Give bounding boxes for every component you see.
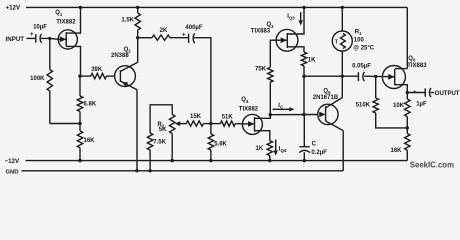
resistor 100K bbox=[47, 38, 80, 123]
wire node B to 16K bbox=[79, 124, 81, 131]
wire pot top bus bbox=[150, 105, 172, 133]
svg-text:C: C bbox=[312, 142, 317, 148]
svg-text:10µF: 10µF bbox=[33, 25, 47, 31]
wire node E down to Q5 base node bbox=[303, 76, 305, 114]
svg-text:400µF: 400µF bbox=[185, 25, 202, 31]
svg-text:−12V: −12V bbox=[5, 158, 20, 165]
svg-text:IQ4: IQ4 bbox=[279, 146, 287, 153]
svg-text:100: 100 bbox=[354, 38, 365, 44]
junction 5.6K on -12V rail bbox=[209, 159, 212, 162]
wire 0.05uF to node H bbox=[364, 75, 383, 77]
resistor 5.6K bbox=[208, 124, 213, 161]
-12V rail bbox=[26, 160, 408, 162]
svg-text:Q4: Q4 bbox=[241, 97, 249, 104]
resistor 16K left bbox=[77, 131, 82, 148]
svg-text:100K: 100K bbox=[30, 76, 45, 82]
svg-text:TIX882: TIX882 bbox=[239, 106, 259, 112]
wire Q4 node to Q5 base bbox=[270, 114, 318, 116]
current arrow I_Q4 bbox=[274, 140, 278, 156]
junction 39K node bbox=[78, 74, 81, 77]
resistor 1.5K bbox=[135, 7, 140, 37]
junction R1 on +12V rail bbox=[341, 6, 344, 9]
resistor 1K Q4 bbox=[267, 141, 272, 161]
svg-text:SeekIC.com: SeekIC.com bbox=[410, 161, 454, 170]
junction Q3 base2 on +12V rail bbox=[302, 6, 305, 9]
svg-text:TIX883: TIX883 bbox=[251, 29, 271, 35]
junction 16K on -12V rail bbox=[78, 159, 81, 162]
current arrow I_C bbox=[273, 107, 295, 111]
svg-text:IQ3: IQ3 bbox=[287, 14, 295, 21]
svg-text:2K: 2K bbox=[160, 28, 168, 34]
resistor 16K right bbox=[405, 128, 410, 161]
wire Q2 collector up bbox=[137, 38, 139, 63]
svg-text:7.5K: 7.5K bbox=[153, 140, 166, 146]
node I junction output bbox=[406, 91, 409, 94]
svg-text:OUTPUT: OUTPUT bbox=[435, 91, 460, 97]
junction 0.2uF on -12V rail bbox=[303, 159, 306, 162]
node C junction 1.5K/2K/Q2 bbox=[136, 36, 139, 39]
wire node A to Q1 emitter bbox=[50, 37, 59, 40]
junction 7.5K on GND bbox=[148, 169, 151, 172]
node D junction 15K/51K/5.6K bbox=[209, 122, 212, 125]
svg-text:6.8K: 6.8K bbox=[84, 101, 97, 107]
resistor 7.5K bbox=[147, 133, 152, 171]
svg-text:51K: 51K bbox=[222, 115, 234, 121]
svg-text:10K: 10K bbox=[393, 103, 405, 109]
svg-text:0.05µF: 0.05µF bbox=[352, 64, 371, 70]
svg-text:INPUT: INPUT bbox=[6, 36, 25, 43]
wire node E to node G bbox=[304, 75, 358, 77]
transistor Q2 2N388 symbol bbox=[115, 62, 138, 90]
node G junction R1 collector bbox=[341, 75, 344, 78]
node H junction 510K bbox=[374, 75, 377, 78]
svg-text:1µF: 1µF bbox=[416, 102, 427, 108]
svg-text:15K: 15K bbox=[190, 114, 202, 120]
transistor Q4 TIX882 symbol bbox=[242, 114, 270, 140]
svg-text:Q6: Q6 bbox=[408, 56, 416, 63]
resistor 10K bbox=[405, 93, 410, 128]
svg-text:0.2µF: 0.2µF bbox=[311, 150, 327, 156]
node A junction bbox=[48, 37, 51, 40]
resistor 2K bbox=[138, 35, 189, 40]
wire Q5 collector up bbox=[341, 76, 343, 97]
junction Q2 emitter on GND bbox=[135, 169, 138, 172]
wire 400uF to vertical drop bbox=[194, 38, 211, 124]
wire input to capacitor bbox=[27, 37, 36, 39]
junction R2 on -12V rail bbox=[171, 159, 174, 162]
wire Q2 emitter down to GND bbox=[136, 90, 138, 171]
svg-text:+: + bbox=[30, 31, 34, 38]
node J junction 10K/510K/16K bbox=[406, 126, 409, 129]
resistor 15K bbox=[186, 121, 211, 126]
wire Q5 emitter down to GND corner bbox=[342, 131, 344, 171]
resistor 51K bbox=[211, 121, 243, 126]
+12V rail bbox=[26, 6, 407, 8]
node B junction bbox=[78, 122, 81, 125]
svg-text:+12V: +12V bbox=[6, 5, 21, 12]
resistor 510K bbox=[373, 76, 407, 128]
wire 16K to -12V rail bbox=[79, 148, 81, 161]
resistor 1K Q3 bbox=[301, 52, 306, 76]
svg-text:1.5K: 1.5K bbox=[121, 17, 134, 23]
capacitor 1uF bbox=[425, 88, 431, 97]
R2 wiper arrow bbox=[175, 121, 187, 126]
svg-text:39K: 39K bbox=[91, 67, 103, 73]
thermistor R1 bbox=[332, 7, 352, 76]
transistor Q1 TIX882 symbol bbox=[58, 7, 80, 76]
svg-text:+: + bbox=[182, 32, 186, 39]
wire 6.8K to node B bbox=[79, 112, 81, 124]
capacitor C 0.2uF bbox=[299, 115, 310, 161]
svg-text:R1: R1 bbox=[355, 30, 362, 37]
resistor 39K bbox=[80, 73, 115, 78]
svg-text:75K: 75K bbox=[255, 67, 267, 73]
svg-text:2N1671B: 2N1671B bbox=[313, 95, 339, 101]
capacitor 0.05uF bbox=[358, 72, 364, 81]
node E junction 1K/0.05uF wire bbox=[302, 75, 305, 78]
resistor 6.8K bbox=[77, 96, 82, 112]
svg-text:510K: 510K bbox=[356, 103, 371, 109]
transistor Q3 TIX883 symbol bbox=[276, 7, 304, 52]
svg-text:5K: 5K bbox=[159, 127, 167, 133]
svg-text:1K: 1K bbox=[256, 146, 264, 152]
svg-text:2N388: 2N388 bbox=[111, 53, 129, 59]
svg-text:5.6K: 5.6K bbox=[214, 141, 227, 147]
potentiometer R2 5K bbox=[170, 115, 175, 161]
wire Q1 base1 column bbox=[79, 76, 81, 96]
svg-text:+: + bbox=[413, 89, 417, 96]
transistor Q6 TIX883 symbol bbox=[382, 66, 407, 93]
junction 1K Q4 on -12V rail bbox=[268, 159, 271, 162]
current arrow I_Q3 bbox=[299, 12, 303, 26]
svg-text:GND: GND bbox=[6, 169, 19, 175]
svg-text:IC: IC bbox=[278, 103, 283, 110]
resistor 75K bbox=[268, 40, 277, 115]
svg-text:T: T bbox=[335, 39, 339, 45]
svg-text:TIX883: TIX883 bbox=[407, 63, 427, 69]
wire capacitor to node A bbox=[41, 37, 50, 39]
svg-text:16K: 16K bbox=[390, 148, 402, 154]
svg-text:1K: 1K bbox=[308, 57, 316, 63]
wire output node to 1uF bbox=[407, 92, 425, 94]
GND rail bbox=[22, 170, 344, 172]
svg-text:TIX882: TIX882 bbox=[56, 20, 76, 26]
svg-text:@ 25°C: @ 25°C bbox=[353, 45, 375, 51]
transistor Q5 2N1671B symbol bbox=[318, 98, 344, 131]
junction 75K Q4 base2 node bbox=[269, 113, 272, 116]
capacitor 400uF bbox=[189, 33, 195, 43]
wire 1uF to OUTPUT bbox=[430, 92, 434, 94]
svg-text:16K: 16K bbox=[84, 138, 96, 144]
junction 1.5K on +12V rail bbox=[136, 6, 139, 9]
capacitor 10uF bbox=[36, 34, 42, 43]
junction Q1 base2 on +12V rail bbox=[79, 6, 82, 9]
node F junction Q5 base bbox=[302, 113, 305, 116]
svg-text:Q1: Q1 bbox=[55, 10, 63, 17]
